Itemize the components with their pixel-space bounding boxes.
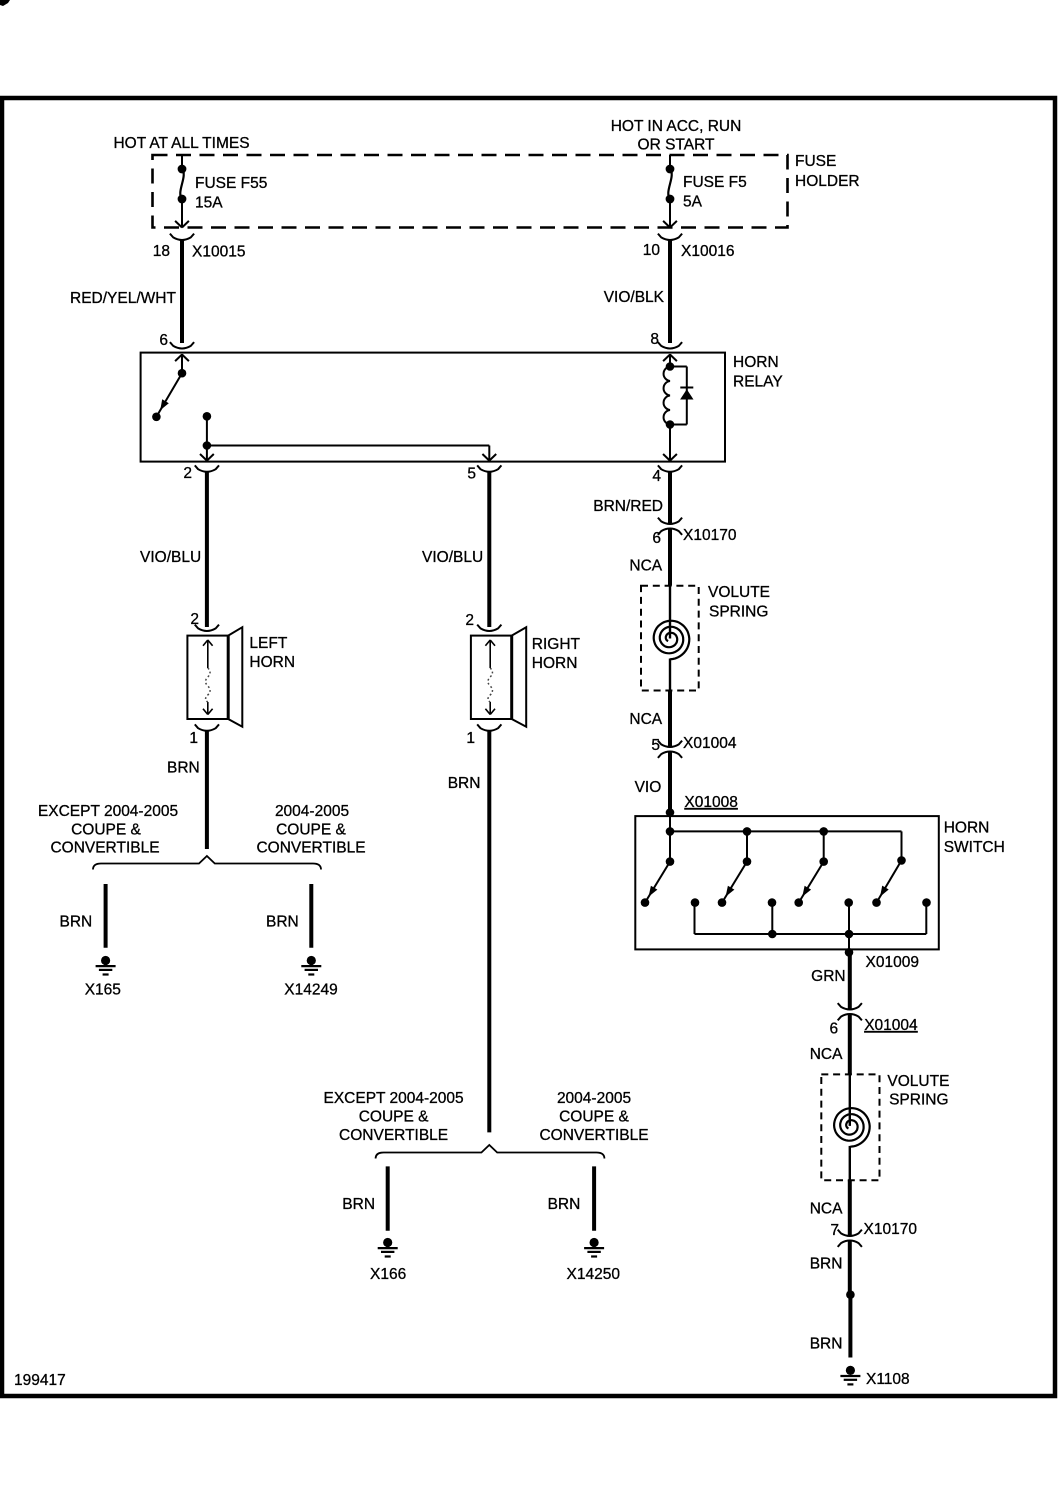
svg-text:CONVERTIBLE: CONVERTIBLE — [339, 1127, 448, 1144]
wire BRN below X10170 — [848, 1241, 852, 1295]
wire VIO to horn switch — [668, 752, 672, 813]
horn switch bus junction 1 — [771, 903, 773, 934]
svg-text:X10015: X10015 — [192, 244, 245, 261]
svg-text:1: 1 — [466, 730, 475, 747]
svg-text:X10170: X10170 — [864, 1221, 918, 1238]
svg-text:VOLUTE: VOLUTE — [887, 1073, 949, 1090]
svg-text:OR START: OR START — [638, 137, 715, 154]
relay switch arm with arrow — [158, 373, 182, 415]
horn relay box — [141, 353, 725, 462]
relay pin 4 connector cup — [658, 465, 682, 471]
svg-text:2: 2 — [465, 612, 474, 629]
diode branch wires — [670, 366, 687, 368]
wire BRN to ground X14249 — [309, 884, 313, 948]
relay coil — [664, 367, 670, 425]
internal wire to pin 5 — [207, 445, 489, 447]
svg-text:RELAY: RELAY — [733, 374, 783, 391]
svg-text:4: 4 — [652, 468, 661, 485]
volute spring 1 spiral — [654, 621, 690, 660]
svg-text:HOT IN ACC, RUN: HOT IN ACC, RUN — [611, 118, 742, 135]
svg-text:X01009: X01009 — [866, 954, 919, 971]
svg-text:X01004: X01004 — [683, 735, 737, 752]
svg-text:COUPE &: COUPE & — [276, 822, 346, 839]
svg-text:VIO/BLU: VIO/BLU — [140, 549, 201, 566]
horn switch contact set 3 — [819, 857, 828, 866]
wire RED/YEL/WHT from X10015 to relay pin 6 — [180, 240, 184, 343]
svg-text:CONVERTIBLE: CONVERTIBLE — [539, 1127, 648, 1144]
wire BRN from left horn — [205, 731, 209, 849]
connector X01004 pin 6 (inline, lower) — [838, 1003, 862, 1009]
relay pin 4 exit arrow — [663, 454, 670, 461]
wire BRN to ground X166 — [386, 1166, 390, 1230]
svg-text:X14250: X14250 — [567, 1266, 621, 1283]
left horn internal element — [207, 641, 209, 668]
svg-text:X166: X166 — [370, 1266, 406, 1283]
svg-text:BRN: BRN — [167, 760, 200, 777]
svg-text:HORN: HORN — [249, 654, 295, 671]
ground X14249 — [307, 956, 316, 965]
horn switch bus junction 2 / output — [848, 903, 850, 934]
volute spring 2 dashed box — [821, 1074, 879, 1180]
wire BRN to ground X165 — [104, 884, 108, 948]
node X01009 — [845, 948, 854, 957]
relay switch pivot node — [178, 369, 187, 378]
svg-text:X1108: X1108 — [866, 1371, 910, 1388]
wire VIO/BLK from X10016 to relay pin 8 — [668, 240, 672, 343]
wire VIO/BLU pin5 to right horn — [487, 472, 491, 627]
ground X165 — [101, 956, 110, 965]
svg-text:2: 2 — [183, 465, 192, 482]
svg-text:BRN: BRN — [60, 914, 93, 931]
svg-text:CONVERTIBLE: CONVERTIBLE — [50, 840, 159, 857]
horn switch box — [635, 816, 939, 949]
horn switch output wire — [848, 934, 850, 952]
svg-text:VIO/BLK: VIO/BLK — [604, 289, 665, 306]
scan artifact top-left corner — [0, 0, 10, 6]
svg-text:5: 5 — [651, 737, 660, 754]
relay coil top node — [666, 362, 675, 371]
svg-text:FUSE: FUSE — [795, 153, 836, 170]
svg-text:BRN: BRN — [548, 1196, 581, 1213]
relay pin 6 connector cup — [170, 342, 194, 348]
relay pin 2 connector cup — [195, 465, 219, 471]
right horn pin 2 connector cup — [477, 625, 501, 631]
relay pin 8 connector cup — [658, 342, 682, 348]
svg-text:FUSE F5: FUSE F5 — [683, 174, 747, 191]
connector X10170 pin 6 (inline) — [658, 518, 682, 524]
wire VIO/BLU pin2 to left horn — [205, 472, 209, 627]
svg-text:HORN: HORN — [944, 820, 990, 837]
svg-text:10: 10 — [643, 242, 661, 259]
wire volute spring 2 to X10170 — [849, 1146, 851, 1180]
svg-text:BRN: BRN — [448, 775, 481, 792]
svg-text:6: 6 — [829, 1021, 838, 1038]
ground X166 — [383, 1238, 392, 1247]
ground X1108 — [846, 1366, 855, 1375]
svg-text:RIGHT: RIGHT — [532, 636, 581, 653]
svg-text:BRN: BRN — [266, 914, 299, 931]
svg-text:BRN: BRN — [342, 1196, 375, 1213]
svg-text:HORN: HORN — [733, 354, 779, 371]
wire BRN/RED pin4 to X10170 — [668, 472, 672, 524]
relay pin 8 entry arrow — [669, 354, 671, 367]
svg-text:VIO/BLU: VIO/BLU — [422, 549, 483, 566]
split brace mid — [376, 1145, 605, 1159]
svg-text:SPRING: SPRING — [889, 1092, 948, 1109]
relay switch fixed contact — [203, 412, 212, 421]
ground X14250 — [590, 1238, 599, 1247]
horn switch contact set 2 — [743, 857, 752, 866]
wire fixed contact to internal node — [206, 416, 208, 445]
svg-text:SWITCH: SWITCH — [944, 839, 1005, 856]
horn switch stub 2 — [746, 831, 748, 861]
left horn pin 1 connector cup — [195, 724, 219, 730]
node X01008 junction — [666, 808, 675, 817]
svg-text:CONVERTIBLE: CONVERTIBLE — [256, 840, 365, 857]
svg-text:199417: 199417 — [14, 1372, 66, 1389]
svg-text:HORN: HORN — [532, 655, 578, 672]
relay pin 5 exit arrow — [482, 454, 489, 461]
svg-text:EXCEPT 2004-2005: EXCEPT 2004-2005 — [38, 803, 178, 820]
horn switch stub 3 — [823, 831, 825, 861]
horn switch stub 4 — [901, 831, 903, 860]
svg-text:2004-2005: 2004-2005 — [275, 803, 349, 820]
internal node junction — [203, 441, 212, 450]
svg-text:COUPE &: COUPE & — [359, 1109, 429, 1126]
svg-text:5A: 5A — [683, 194, 703, 211]
wire coil to pin 4 — [669, 425, 671, 460]
horn switch fixed contact 1 — [691, 898, 700, 907]
svg-text:X14249: X14249 — [284, 982, 337, 999]
horn switch top bus — [670, 830, 902, 832]
svg-text:1: 1 — [189, 730, 198, 747]
svg-text:RED/YEL/WHT: RED/YEL/WHT — [70, 290, 176, 307]
svg-text:2004-2005: 2004-2005 — [557, 1090, 631, 1107]
horn switch input wire — [669, 813, 671, 862]
svg-text:NCA: NCA — [629, 711, 662, 728]
fuse F5 5A — [669, 155, 671, 169]
svg-text:NCA: NCA — [810, 1046, 843, 1063]
svg-text:BRN: BRN — [810, 1256, 843, 1273]
svg-text:X10016: X10016 — [681, 243, 734, 260]
svg-text:COUPE &: COUPE & — [71, 822, 141, 839]
svg-text:X165: X165 — [85, 982, 121, 999]
svg-text:BRN/RED: BRN/RED — [593, 498, 663, 515]
wire BRN from right horn — [487, 731, 491, 1132]
svg-text:SPRING: SPRING — [709, 604, 768, 621]
connector X10015 pin 18 (female cup) — [170, 234, 194, 240]
wire BRN to ground X1108 — [848, 1295, 852, 1358]
volute spring 2 spiral — [834, 1108, 870, 1147]
wire BRN to ground X14250 — [592, 1166, 596, 1230]
horn switch fixed contact 4 — [922, 898, 931, 907]
svg-text:6: 6 — [159, 332, 168, 349]
relay pin 2 exit arrow — [206, 446, 208, 460]
horn switch contact set 1 — [666, 857, 675, 866]
svg-text:EXCEPT 2004-2005: EXCEPT 2004-2005 — [324, 1090, 464, 1107]
svg-text:COUPE &: COUPE & — [559, 1109, 629, 1126]
relay pin 5 connector cup — [477, 465, 501, 471]
svg-text:HOT AT ALL TIMES: HOT AT ALL TIMES — [113, 135, 249, 152]
volute spring 1 dashed box — [641, 586, 699, 691]
svg-text:VIO: VIO — [635, 779, 662, 796]
svg-text:BRN: BRN — [810, 1336, 843, 1353]
connector X10170 pin 7 (inline) — [838, 1230, 862, 1236]
svg-text:7: 7 — [830, 1222, 839, 1239]
horn switch contact set 4 — [897, 856, 906, 865]
diode D1 (suppression diode) — [680, 387, 693, 389]
svg-text:GRN: GRN — [811, 968, 845, 985]
horn switch bottom bus — [694, 903, 696, 934]
horn switch fixed contact 2 — [768, 898, 777, 907]
svg-text:FUSE F55: FUSE F55 — [195, 175, 267, 192]
connector X10016 pin 10 (female cup) — [658, 234, 682, 240]
svg-text:18: 18 — [153, 243, 170, 260]
wire GRN from X01009 — [848, 952, 852, 1009]
relay coil bottom node — [666, 420, 675, 429]
relay switch open contact — [152, 413, 161, 422]
split brace left horn — [93, 856, 321, 870]
left horn speaker symbol — [187, 636, 228, 719]
svg-text:5: 5 — [467, 466, 476, 483]
right horn pin 1 connector cup — [477, 724, 501, 730]
svg-text:HOLDER: HOLDER — [795, 173, 860, 190]
connector X01004 pin 5 (inline) — [658, 741, 682, 747]
wire volute spring 1 to X01004 — [669, 659, 671, 691]
svg-text:NCA: NCA — [810, 1201, 843, 1218]
svg-text:8: 8 — [650, 331, 659, 348]
splice node — [846, 1290, 855, 1299]
svg-text:X01004: X01004 — [864, 1017, 918, 1034]
svg-text:X10170: X10170 — [683, 527, 737, 544]
left horn pin 2 connector cup — [195, 625, 219, 631]
horn switch fixed contact 3 — [844, 898, 853, 907]
svg-text:6: 6 — [652, 530, 661, 547]
right horn internal element — [489, 641, 491, 668]
svg-text:VOLUTE: VOLUTE — [708, 584, 770, 601]
svg-text:X01008: X01008 — [684, 794, 737, 811]
svg-text:LEFT: LEFT — [249, 635, 287, 652]
wire NCA to volute spring 1 — [668, 529, 672, 586]
wire NCA to volute spring 2 — [848, 1014, 852, 1074]
fuse F55 15A — [181, 155, 183, 169]
right horn speaker symbol — [471, 636, 512, 719]
relay pin 6 entry arrow — [181, 354, 183, 373]
svg-text:NCA: NCA — [629, 558, 662, 575]
svg-text:15A: 15A — [195, 195, 223, 212]
fuse holder dashed box — [153, 155, 788, 228]
